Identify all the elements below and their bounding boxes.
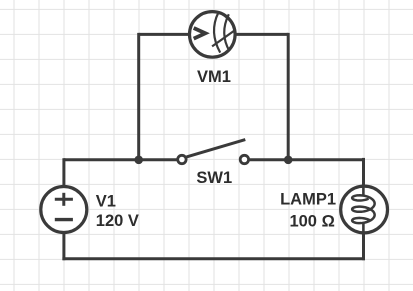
wire right vertical VM branch bbox=[287, 33, 290, 160]
svg-text:100 Ω: 100 Ω bbox=[289, 213, 334, 231]
svg-text:SW1: SW1 bbox=[196, 169, 232, 187]
wire right branch down to lamp bbox=[362, 158, 365, 196]
wire V1 to bottom bbox=[62, 233, 65, 261]
wire bottom horizontal bbox=[62, 257, 365, 260]
lamp LAMP1 bbox=[341, 186, 388, 233]
wire lamp to bottom bbox=[362, 222, 365, 260]
voltage source V1 bbox=[41, 187, 87, 233]
wire top-left horizontal bbox=[139, 33, 190, 36]
svg-text:V1: V1 bbox=[96, 193, 116, 211]
wire left branch down to V1 bbox=[62, 158, 65, 186]
svg-text:LAMP1: LAMP1 bbox=[280, 191, 336, 209]
voltmeter VM1 bbox=[190, 12, 236, 58]
switch SW1 bbox=[178, 140, 249, 164]
svg-text:120 V: 120 V bbox=[96, 212, 139, 230]
junction dot left bbox=[134, 156, 143, 165]
wire left vertical VM branch bbox=[137, 33, 140, 160]
wire main left segment bbox=[64, 158, 177, 161]
wire main right segment bbox=[250, 158, 364, 161]
wire top-right horizontal bbox=[235, 33, 288, 36]
svg-text:VM1: VM1 bbox=[197, 68, 231, 86]
junction dot right bbox=[284, 156, 293, 165]
